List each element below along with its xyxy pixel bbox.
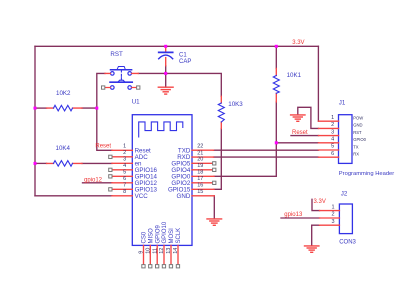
resistor 10K2 leads	[47, 107, 82, 109]
J2 pin leads	[320, 211, 340, 226]
svg-text:7: 7	[123, 183, 126, 189]
resistor 10K3 leads	[220, 96, 222, 128]
U1 left pin names	[135, 147, 158, 200]
J1 header box	[339, 115, 353, 164]
svg-text:10: 10	[146, 248, 152, 254]
svg-text:3: 3	[331, 129, 334, 135]
svg-text:1: 1	[331, 115, 334, 121]
wire 10K3 bottom to U1 pin16 GPIO15	[214, 129, 221, 190]
resistor 10K4 leads	[47, 162, 82, 164]
svg-text:J2: J2	[341, 190, 348, 197]
resistor 10K2 body	[54, 105, 73, 111]
U1 right pin numbers	[197, 144, 203, 196]
wire 10K4 left	[35, 162, 47, 164]
wire 10K2 left	[35, 107, 47, 109]
svg-text:4: 4	[123, 163, 126, 169]
ground at U1 GND	[207, 219, 222, 225]
wire GPIO0 net: U1 pin18 to J1 pin4	[214, 143, 319, 177]
svg-text:2: 2	[331, 122, 334, 128]
wire VCC bottom to U1 pin8	[35, 195, 112, 197]
J1 pin leads	[319, 121, 339, 157]
svg-text:15: 15	[197, 189, 203, 195]
wire 3.3V right drop to J1 pin1	[317, 46, 319, 121]
svg-text:GPIO9: GPIO9	[155, 224, 161, 243]
svg-text:gpio12: gpio12	[84, 178, 103, 184]
U1 left pin leads	[112, 150, 132, 196]
svg-text:gpio13: gpio13	[284, 212, 303, 218]
svg-text:14: 14	[173, 248, 179, 254]
svg-text:MOSI: MOSI	[169, 228, 175, 244]
wire 10K1 bottom to GPIO0 junction	[275, 102, 277, 143]
svg-text:GND: GND	[177, 193, 191, 200]
svg-text:10K3: 10K3	[228, 101, 243, 108]
svg-text:GND: GND	[353, 123, 362, 128]
U1 right pin leads	[192, 150, 214, 196]
ground at J1 GND	[291, 115, 305, 121]
junction C1 top	[164, 45, 167, 48]
svg-text:3: 3	[123, 157, 126, 163]
U1 bottom pin names	[142, 221, 183, 243]
svg-text:3: 3	[331, 219, 334, 225]
resistor 10K1 leads	[275, 68, 277, 102]
pushbutton RST lower bar with bump	[110, 81, 132, 83]
wire gpio13 to J2 pin2	[281, 217, 320, 219]
J1 pin function labels	[353, 116, 366, 157]
svg-text:Programming Header: Programming Header	[339, 171, 394, 177]
J2 connector box	[339, 204, 352, 234]
U1 antenna	[139, 122, 183, 137]
svg-text:GPIO10: GPIO10	[162, 221, 168, 243]
U1 bottom no-connect squares	[142, 265, 180, 268]
svg-text:J1: J1	[339, 99, 346, 106]
junction C1 bottom button	[164, 72, 167, 75]
svg-text:3.3V: 3.3V	[292, 40, 304, 46]
svg-text:1: 1	[331, 204, 334, 210]
capacitor C1 bottom lead	[165, 58, 167, 66]
pushbutton RST cap	[117, 67, 125, 70]
svg-text:RST: RST	[353, 130, 362, 135]
wire 3.3V top rail	[35, 45, 318, 47]
U1 bottom pin numbers	[139, 248, 180, 254]
wire 3.3V stub at J2 pin1	[312, 199, 320, 210]
ground at C1	[158, 87, 173, 94]
wire GND hook to J1 pin2	[298, 107, 319, 128]
wire 10K1 top lead from 3.3V	[275, 46, 277, 68]
svg-text:CS0: CS0	[142, 231, 148, 243]
svg-text:SCLK: SCLK	[176, 228, 182, 244]
pushbutton RST bottom stubs	[105, 87, 137, 89]
wire gpio12 to U1 pin6	[83, 182, 113, 184]
svg-text:20: 20	[197, 157, 203, 163]
wire ground stem at C1	[165, 73, 167, 87]
pushbutton RST terminal circles	[111, 72, 115, 76]
svg-text:19: 19	[197, 163, 203, 169]
wire TXD net: U1 pin22 to J1 pin5	[214, 149, 319, 151]
svg-text:MISO: MISO	[149, 228, 155, 244]
svg-text:1: 1	[123, 144, 126, 150]
svg-text:3.3V: 3.3V	[314, 199, 326, 205]
svg-text:11: 11	[152, 248, 158, 254]
svg-text:5: 5	[123, 170, 126, 176]
junction 10K2 right reset	[95, 107, 98, 110]
svg-text:2: 2	[123, 150, 126, 156]
svg-text:6: 6	[331, 151, 334, 157]
svg-text:POW: POW	[353, 116, 363, 121]
svg-text:22: 22	[197, 144, 203, 150]
wire Reset net stub to J1 pin3	[291, 135, 319, 137]
svg-text:13: 13	[166, 248, 172, 254]
pushbutton RST no-connect squares	[102, 86, 105, 89]
svg-text:4: 4	[331, 137, 334, 143]
svg-text:VCC: VCC	[135, 193, 149, 200]
wire J2 pin3 to ground	[312, 225, 320, 246]
svg-text:12: 12	[159, 248, 165, 254]
capacitor C1 top lead	[165, 46, 167, 52]
svg-text:21: 21	[197, 151, 203, 157]
wire reset net: button to 10K2 to U1 pin1	[97, 73, 112, 150]
U1 box	[132, 115, 192, 246]
wire 10K4 right to U1 pin3	[82, 162, 112, 164]
junction 10K1 top	[275, 45, 278, 48]
svg-text:TX: TX	[353, 144, 359, 149]
resistor 10K3 body	[218, 103, 224, 122]
svg-text:CON3: CON3	[339, 239, 356, 245]
U1 bottom pin stubs	[144, 245, 179, 264]
wire 3.3V left rail	[34, 46, 36, 196]
svg-text:17: 17	[197, 176, 203, 182]
pushbutton RST top stubs	[105, 72, 138, 74]
pushbutton RST stem tick and dashes	[120, 70, 122, 72]
J2 pin numbers	[331, 204, 334, 225]
svg-text:CAP: CAP	[179, 59, 191, 65]
J1 pin numbers	[331, 115, 334, 157]
svg-text:6: 6	[123, 176, 126, 182]
wire 10K2 right	[82, 107, 97, 109]
ground at J2	[305, 246, 319, 252]
svg-text:RX: RX	[353, 152, 359, 157]
junction 10K4 left rail	[34, 162, 37, 165]
capacitor C1 plates	[159, 51, 173, 53]
svg-text:Reset: Reset	[95, 143, 111, 149]
wire C1 bottom lead lower	[165, 66, 167, 74]
svg-text:2: 2	[331, 212, 334, 218]
U1 left no-connect squares	[109, 155, 112, 191]
svg-text:8: 8	[123, 189, 126, 195]
resistor 10K4 body	[54, 161, 73, 167]
resistor 10K1 body	[273, 76, 279, 94]
wire RXD net: U1 pin21 to J1 pin6	[214, 156, 319, 158]
svg-text:9: 9	[139, 251, 145, 254]
wire button right to C1 bottom and 10K3 top	[138, 73, 221, 96]
svg-text:U1: U1	[132, 99, 140, 106]
svg-text:10K4: 10K4	[56, 145, 71, 152]
svg-text:RST: RST	[110, 51, 123, 58]
junction 10K2 left rail	[34, 107, 37, 110]
svg-text:18: 18	[197, 170, 203, 176]
wire U1 GND pin to ground	[213, 196, 215, 219]
pushbutton RST top bar	[111, 69, 132, 71]
U1 right no-connect squares	[213, 162, 216, 185]
svg-text:C1: C1	[179, 53, 187, 59]
svg-text:10K2: 10K2	[56, 90, 71, 97]
svg-text:5: 5	[331, 144, 334, 150]
svg-text:16: 16	[197, 183, 203, 189]
U1 left pin numbers	[123, 144, 126, 196]
junction GPIO0 10K1	[275, 141, 278, 144]
svg-text:GPIO0: GPIO0	[353, 137, 366, 142]
svg-text:Reset: Reset	[292, 130, 308, 136]
U1 right pin names	[168, 147, 191, 200]
svg-text:10K1: 10K1	[287, 72, 302, 79]
